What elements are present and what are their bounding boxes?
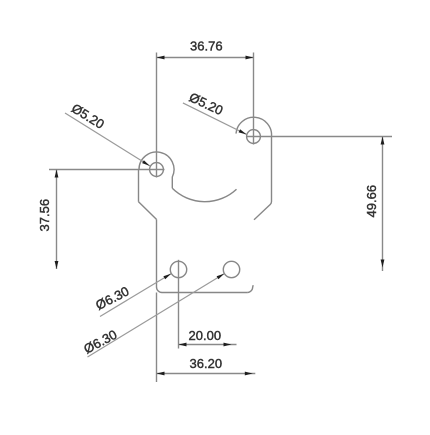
dimension line 36.76 [157, 57, 254, 59]
hole top-right [247, 130, 261, 144]
arrow 49.66 top [381, 137, 385, 145]
svg-text:20.00: 20.00 [189, 328, 222, 343]
extension line vertical through right hole (36.76) [253, 53, 255, 145]
dimension line 37.56 [56, 170, 58, 270]
arrow 37.56 bottom [55, 261, 59, 269]
part outline: bottom edge [162, 292, 247, 294]
arrow leader D6.30 hole1 [163, 274, 171, 280]
part outline: left tab arc [139, 152, 174, 188]
part outline: right edge [271, 137, 273, 202]
dimension line 36.20 [157, 373, 256, 375]
dimension line 49.66 [382, 137, 384, 272]
arrow leader D6.30 hole2 [217, 274, 225, 280]
arrow 36.20 right [245, 372, 253, 376]
extension line horizontal left hole (37.56) [49, 169, 165, 171]
arrow 20.00 left [179, 343, 187, 347]
part outline: bottom-left fillet [157, 287, 163, 293]
part outline: right tab arc [236, 117, 272, 136]
leader line D5.20 right [183, 103, 247, 134]
arrow leader D5.20 left [142, 160, 150, 166]
svg-text:36.76: 36.76 [190, 39, 223, 54]
part outline: lower-left edge [156, 219, 158, 287]
extension line horizontal right hole (49.66) [247, 136, 393, 138]
hole top-left [150, 163, 164, 177]
part outline: left step diagonal [139, 202, 157, 220]
arrow 36.76 right [246, 56, 254, 60]
leader line D6.30 hole1 [100, 274, 171, 317]
svg-text:49.66: 49.66 [364, 185, 379, 218]
hole bottom-1 [170, 261, 186, 277]
arrow 20.00 right [224, 343, 232, 347]
arrow 37.56 top [55, 170, 59, 178]
leader line D6.30 hole2 [88, 274, 225, 357]
part outline: bottom-right fillet [247, 285, 253, 292]
arrow 49.66 bottom [381, 260, 385, 268]
arrow leader D5.20 right [239, 129, 247, 134]
dimension line 20.00 [179, 344, 237, 346]
arrow 36.20 left [157, 372, 165, 376]
extension line left (36.20) [156, 293, 158, 383]
part outline: concave saddle arc [172, 188, 236, 201]
svg-text:36.20: 36.20 [190, 356, 223, 371]
svg-text:37.56: 37.56 [37, 199, 52, 232]
part outline: left edge [138, 170, 140, 202]
hole bottom-2 [223, 261, 239, 277]
extension line through bottom hole 1 (20.00) [178, 260, 180, 349]
extension line vertical through left hole (36.76) [156, 53, 158, 178]
part outline: right step diagonal [254, 202, 272, 220]
arrow 36.76 left [157, 56, 165, 60]
leader line D5.20 left [65, 113, 150, 166]
